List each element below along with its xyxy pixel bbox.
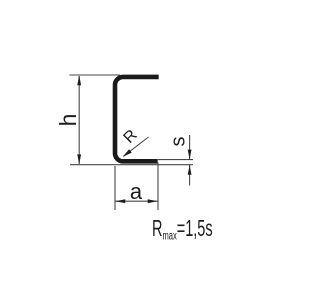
svg-text:h: h xyxy=(55,114,81,127)
svg-text:Rmax=1,5s: Rmax=1,5s xyxy=(152,217,213,243)
svg-text:a: a xyxy=(130,179,143,204)
svg-text:s: s xyxy=(168,137,190,147)
svg-text:R: R xyxy=(121,127,141,147)
